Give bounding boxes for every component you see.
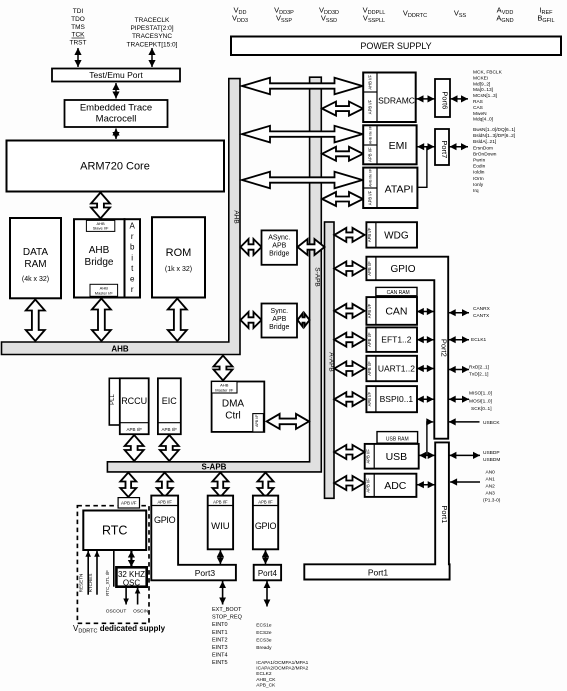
svg-text:Ioldin: Ioldin [473, 170, 485, 176]
svg-text:RTC: RTC [102, 524, 127, 538]
svg-text:MCKEi: MCKEi [473, 75, 488, 81]
svg-text:USB: USB [386, 451, 408, 463]
svg-text:MCsN[1..3]: MCsN[1..3] [473, 93, 497, 99]
svg-text:RAM: RAM [24, 259, 46, 270]
svg-text:AN0: AN0 [486, 470, 496, 476]
svg-text:SDRAMC: SDRAMC [378, 96, 415, 106]
svg-text:AHB: AHB [111, 345, 129, 354]
svg-text:DATA: DATA [23, 247, 49, 258]
svg-text:(P1.3-0): (P1.3-0) [483, 498, 501, 504]
svg-text:Port4: Port4 [258, 569, 278, 578]
svg-text:PwrIn: PwrIn [473, 158, 486, 164]
svg-text:BsldN[1..3]/DP[6..2]: BsldN[1..3]/DP[6..2] [473, 133, 515, 139]
svg-text:APB I/F: APB I/F [213, 499, 228, 504]
svg-text:OSC: OSC [123, 579, 141, 588]
svg-text:r: r [131, 285, 134, 294]
svg-text:ICAPA1/OCMPA1/MPA1: ICAPA1/OCMPA1/MPA1 [256, 660, 308, 666]
svg-text:Ionly: Ionly [473, 182, 484, 188]
svg-text:PLL: PLL [110, 394, 116, 405]
svg-text:Slave I/F: Slave I/F [93, 226, 109, 231]
svg-text:RCCU: RCCU [121, 396, 147, 406]
svg-text:Ctrl: Ctrl [225, 411, 241, 422]
svg-text:MISO[1..0]: MISO[1..0] [469, 391, 492, 397]
svg-text:AN1: AN1 [486, 477, 496, 483]
svg-text:TRACECLK: TRACECLK [135, 17, 170, 24]
svg-text:EMI: EMI [389, 140, 408, 152]
svg-text:Embedded Trace: Embedded Trace [80, 103, 152, 114]
svg-text:APB: APB [272, 316, 286, 323]
svg-text:Bready: Bready [256, 645, 272, 651]
svg-text:Ma[0..13]: Ma[0..13] [473, 87, 493, 93]
svg-text:UART1..2: UART1..2 [378, 364, 415, 374]
svg-text:MOSI[1..0]: MOSI[1..0] [469, 399, 492, 405]
svg-text:STOP_REQ: STOP_REQ [212, 615, 243, 621]
svg-text:APB I/F: APB I/F [365, 449, 370, 464]
svg-text:CANTX: CANTX [473, 313, 490, 319]
svg-text:ECS3e: ECS3e [256, 638, 272, 644]
svg-text:APB I/F: APB I/F [368, 99, 373, 114]
svg-text:GPIO: GPIO [154, 515, 176, 525]
svg-text:Port6: Port6 [441, 91, 450, 109]
svg-text:ICAPA2/OCMPA2/MPA2: ICAPA2/OCMPA2/MPA2 [256, 666, 308, 672]
svg-text:APB I/F: APB I/F [255, 414, 259, 427]
svg-text:Master I/F: Master I/F [95, 290, 114, 295]
svg-text:CAN RAM: CAN RAM [387, 290, 410, 296]
svg-text:CANRX: CANRX [473, 306, 491, 312]
svg-text:APB I/F: APB I/F [126, 427, 142, 432]
svg-text:r: r [131, 232, 134, 241]
svg-text:APB I/F: APB I/F [258, 499, 273, 504]
svg-text:APB_CK: APB_CK [256, 682, 276, 688]
svg-text:RTCRES: RTCRES [88, 574, 93, 593]
svg-text:BwsN[1..0]/DQ[6..1]: BwsN[1..0]/DQ[6..1] [473, 127, 515, 133]
svg-text:ADC: ADC [384, 480, 407, 492]
svg-text:Bridge: Bridge [269, 251, 289, 258]
svg-text:OSCIN: OSCIN [133, 609, 149, 615]
svg-text:ATAPI: ATAPI [385, 184, 414, 196]
svg-text:(4k x 32): (4k x 32) [22, 276, 49, 283]
svg-text:AHB I/F: AHB I/F [368, 75, 373, 90]
svg-text:AHB: AHB [233, 210, 240, 223]
svg-text:S-APB: S-APB [314, 267, 321, 287]
svg-text:EINT2: EINT2 [212, 637, 228, 643]
svg-text:ASync.: ASync. [268, 235, 290, 242]
svg-text:APB I/F: APB I/F [368, 147, 373, 162]
svg-text:AN3: AN3 [486, 491, 496, 497]
svg-text:ECS2e: ECS2e [256, 630, 272, 636]
svg-text:Sync.: Sync. [271, 308, 289, 315]
svg-text:ECLK1: ECLK1 [471, 337, 487, 343]
svg-text:USBDM: USBDM [483, 457, 500, 463]
svg-text:Port2: Port2 [439, 339, 448, 357]
svg-text:Irq: Irq [473, 188, 479, 194]
svg-text:ECS1e: ECS1e [256, 623, 272, 629]
svg-text:ARM720 Core: ARM720 Core [80, 161, 150, 173]
svg-text:DMA: DMA [222, 399, 245, 410]
svg-text:Macrocell: Macrocell [96, 114, 137, 125]
svg-text:RESETN: RESETN [78, 574, 83, 593]
svg-text:Bridge: Bridge [85, 257, 114, 268]
svg-text:WDG: WDG [384, 231, 409, 242]
svg-text:EFT1..2: EFT1..2 [381, 335, 412, 345]
svg-text:i: i [131, 253, 133, 262]
svg-text:AHB_CK: AHB_CK [256, 677, 276, 683]
svg-text:AN2: AN2 [486, 484, 496, 490]
svg-text:USBDP: USBDP [483, 450, 500, 456]
svg-text:APB: APB [272, 243, 286, 250]
svg-text:Port1: Port1 [368, 568, 389, 578]
svg-text:TDI: TDI [73, 8, 84, 15]
svg-text:Port7: Port7 [440, 140, 449, 158]
svg-text:EIC: EIC [162, 396, 178, 406]
svg-text:BrOnDown: BrOnDown [473, 151, 497, 157]
svg-text:PIPESTAT[2:0]: PIPESTAT[2:0] [130, 25, 173, 32]
svg-text:(1k x 32): (1k x 32) [165, 266, 192, 273]
svg-text:EINT1: EINT1 [212, 630, 228, 636]
svg-text:TRACESYNC: TRACESYNC [132, 33, 172, 40]
svg-text:POWER SUPPLY: POWER SUPPLY [360, 41, 431, 51]
svg-text:RTC_XTL I/F: RTC_XTL I/F [105, 570, 110, 596]
svg-text:APB I/F: APB I/F [367, 227, 372, 242]
svg-text:TRACEPKT[15:0]: TRACEPKT[15:0] [127, 41, 178, 48]
svg-text:CAS: CAS [473, 105, 483, 111]
svg-text:Port1: Port1 [440, 505, 449, 523]
svg-text:OSCOUT: OSCOUT [106, 609, 127, 615]
svg-text:APB I/F: APB I/F [367, 303, 372, 318]
svg-text:Port3: Port3 [195, 568, 216, 578]
svg-text:AHB: AHB [89, 245, 110, 256]
svg-text:AHB lite I/F: AHB lite I/F [369, 125, 373, 144]
svg-text:ROM: ROM [166, 247, 192, 259]
svg-text:EINT3: EINT3 [212, 645, 228, 651]
svg-text:SCK[0..1]: SCK[0..1] [471, 406, 492, 412]
svg-text:TDO: TDO [71, 16, 85, 23]
svg-text:RAS: RAS [473, 99, 483, 105]
svg-text:Master I/F: Master I/F [215, 387, 234, 392]
svg-text:ErsnDom: ErsnDom [473, 145, 493, 151]
svg-text:USBCK: USBCK [483, 420, 500, 426]
svg-text:GPIO: GPIO [390, 264, 415, 275]
svg-text:APB I/F: APB I/F [367, 361, 372, 376]
svg-text:EINT4: EINT4 [212, 653, 228, 659]
svg-text:APB I/F: APB I/F [121, 501, 137, 506]
svg-text:TxD[2..1]: TxD[2..1] [469, 372, 488, 378]
svg-text:TRST: TRST [70, 40, 87, 47]
svg-text:e: e [130, 275, 135, 284]
svg-text:EXT_BOOT: EXT_BOOT [212, 607, 242, 613]
svg-text:APB I/F: APB I/F [162, 427, 178, 432]
svg-text:WIU: WIU [211, 521, 230, 532]
svg-text:EINT0: EINT0 [212, 622, 228, 628]
svg-text:S-APB: S-APB [202, 462, 227, 471]
svg-text:BsldA[..21]: BsldA[..21] [473, 139, 496, 145]
svg-text:USB RAM: USB RAM [386, 436, 409, 442]
svg-text:APB I/F: APB I/F [365, 478, 370, 493]
svg-text:RxD[2..1]: RxD[2..1] [469, 365, 489, 371]
svg-text:APB I/F: APB I/F [368, 190, 373, 205]
svg-text:Test/Emu Port: Test/Emu Port [89, 70, 143, 80]
svg-text:TCK: TCK [72, 32, 86, 39]
svg-text:GPIO: GPIO [255, 521, 277, 531]
svg-text:EINT5: EINT5 [212, 660, 228, 666]
svg-text:AHB lite I/F: AHB lite I/F [369, 168, 373, 187]
svg-text:BSPI0..1: BSPI0..1 [380, 394, 414, 404]
svg-text:ECLK2: ECLK2 [256, 671, 272, 677]
svg-text:APB I/F: APB I/F [157, 499, 172, 504]
svg-text:APB I/F: APB I/F [367, 332, 372, 347]
svg-text:IOrIn: IOrIn [473, 176, 484, 182]
svg-text:CAN: CAN [385, 306, 407, 318]
svg-text:A: A [130, 222, 136, 231]
svg-text:MweN: MweN [473, 111, 487, 117]
svg-text:b: b [130, 243, 135, 252]
svg-text:Bridge: Bridge [269, 324, 289, 331]
svg-text:TMS: TMS [71, 24, 85, 31]
svg-text:MCK, FBCLK: MCK, FBCLK [473, 70, 503, 76]
svg-text:Mdq[4..0]: Mdq[4..0] [473, 117, 493, 123]
svg-text:APB I/F: APB I/F [367, 392, 372, 407]
svg-text:APB I/F: APB I/F [367, 261, 372, 276]
svg-text:Md[9..2]: Md[9..2] [473, 81, 490, 87]
svg-text:Eodin: Eodin [473, 164, 486, 170]
